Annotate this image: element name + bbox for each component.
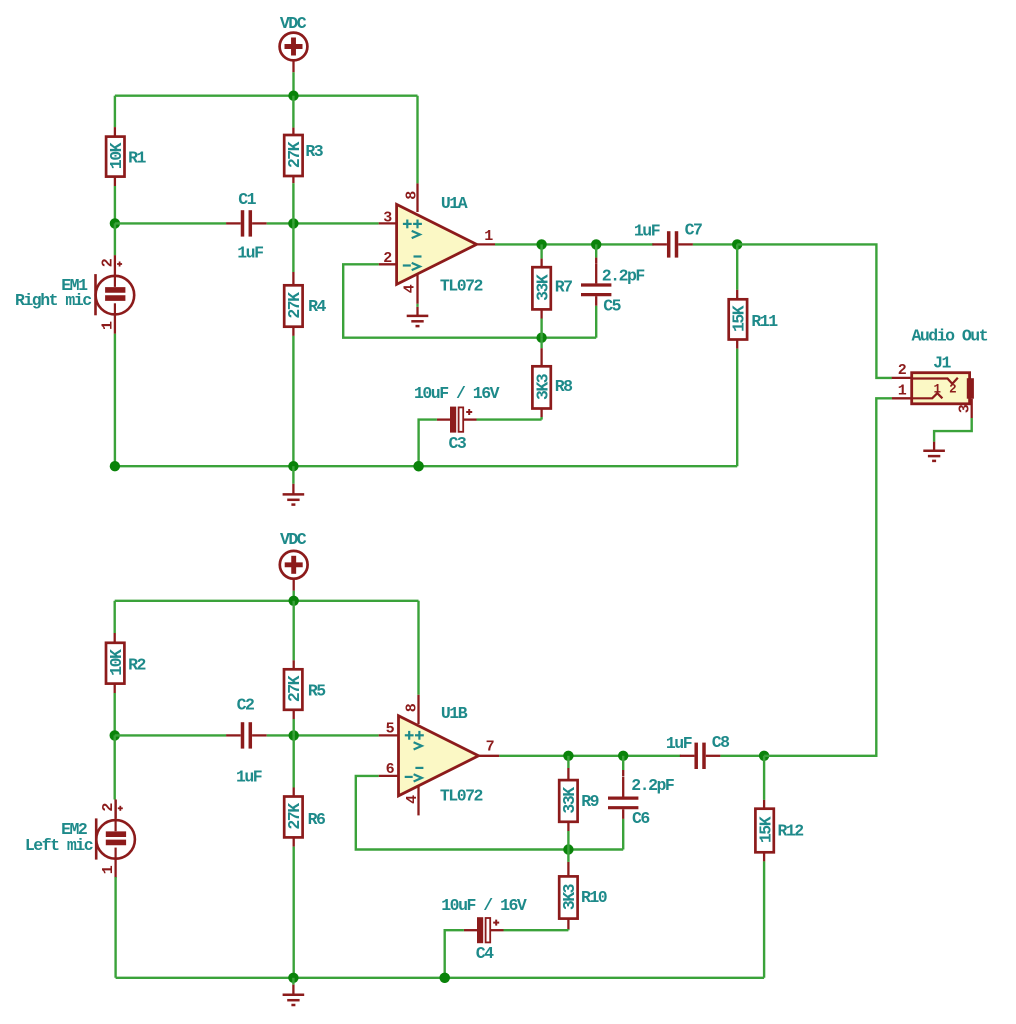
svg-text:Left mic: Left mic [25,836,93,855]
svg-text:R8: R8 [555,377,573,396]
svg-text:C3: C3 [448,434,466,453]
svg-text:R5: R5 [308,681,326,700]
svg-text:1: 1 [934,383,941,397]
svg-text:C4: C4 [476,944,494,963]
svg-text:R9: R9 [581,792,598,811]
svg-text:2: 2 [949,382,956,396]
svg-text:15K: 15K [756,816,775,843]
svg-text:TL072: TL072 [440,786,483,805]
svg-text:27K: 27K [285,675,304,702]
svg-text:Audio Out: Audio Out [911,327,987,346]
svg-text:C8: C8 [712,733,730,752]
svg-text:3K3: 3K3 [533,373,552,400]
svg-text:R11: R11 [751,312,778,331]
svg-text:10uF / 16V: 10uF / 16V [414,384,500,403]
svg-text:10K: 10K [107,649,126,676]
svg-text:1uF: 1uF [634,222,660,241]
svg-text:C1: C1 [238,190,256,209]
svg-text:1uF: 1uF [236,767,262,786]
svg-text:3K3: 3K3 [560,883,579,910]
svg-text:R6: R6 [308,810,325,829]
svg-text:7: 7 [486,739,494,756]
svg-text:27K: 27K [285,803,304,830]
svg-text:C2: C2 [237,695,254,714]
svg-text:R2: R2 [128,655,145,674]
svg-text:2.2pF: 2.2pF [602,266,645,285]
svg-text:TL072: TL072 [440,276,483,295]
svg-text:15K: 15K [730,305,749,332]
svg-text:R10: R10 [581,888,607,907]
svg-text:1uF: 1uF [237,243,263,262]
svg-text:1uF: 1uF [666,734,692,753]
svg-text:33K: 33K [533,274,552,301]
svg-text:R3: R3 [305,142,323,161]
svg-text:VDC: VDC [280,14,307,33]
svg-text:U1B: U1B [441,704,468,723]
svg-text:J1: J1 [933,354,951,373]
svg-text:2.2pF: 2.2pF [631,776,674,795]
svg-text:C5: C5 [603,297,621,316]
svg-text:10uF / 16V: 10uF / 16V [441,896,527,915]
svg-text:10K: 10K [107,142,126,169]
svg-text:U1A: U1A [441,194,468,213]
svg-text:33K: 33K [560,787,579,814]
svg-text:R7: R7 [555,277,572,296]
svg-text:VDC: VDC [280,530,307,549]
svg-text:R1: R1 [128,149,146,168]
svg-text:R4: R4 [308,297,326,316]
svg-text:Right mic: Right mic [15,291,91,310]
svg-text:R12: R12 [777,821,803,840]
svg-text:C7: C7 [685,221,702,240]
svg-text:C6: C6 [632,809,649,828]
svg-text:27K: 27K [285,141,304,168]
svg-text:27K: 27K [285,292,304,319]
